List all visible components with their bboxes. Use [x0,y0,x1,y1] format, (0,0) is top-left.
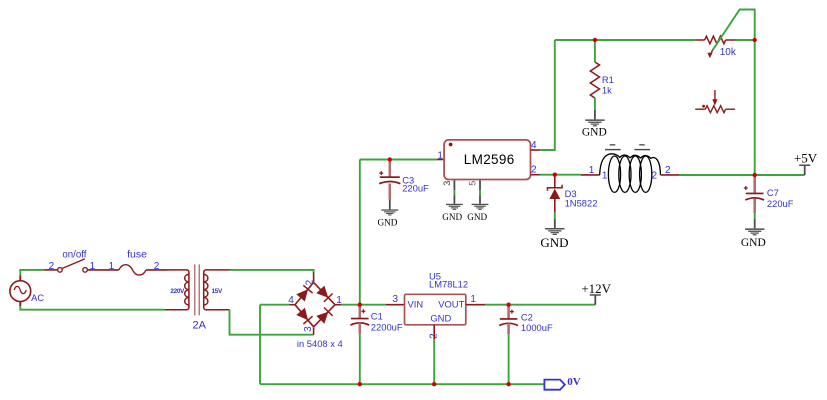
svg-text:2: 2 [531,164,537,175]
svg-text:VIN: VIN [408,298,424,309]
wire secondary top to bridge pin2 [230,270,314,273]
wire pin2 to D3 node [540,174,555,176]
power flag +5V [799,165,810,176]
svg-text:GND: GND [741,237,766,249]
transformer T1 primary winding [165,270,189,310]
pot wiper wire [713,10,755,51]
svg-text:220V: 220V [170,288,185,295]
LM2596 pin 1 stub [437,159,444,161]
junction +12V / C2 [506,303,510,307]
wire D3 node to inductor [555,174,581,176]
ground (D3) [545,228,564,235]
inductor L1 [600,154,661,193]
svg-text:1: 1 [470,294,476,305]
junction C3 [388,157,392,161]
wire AC bottom to transformer [20,306,165,310]
resistor R1 1k [590,62,599,98]
LM2596 pin 4 stub [531,149,541,151]
bridge pin 1 stub [335,304,341,306]
svg-text:1: 1 [589,165,595,176]
net flag 0V [544,380,564,390]
svg-text:C1: C1 [371,311,383,322]
switch SW1 on/off [58,259,88,272]
inductor core marks [605,144,650,150]
LM2596 pin 2 stub [531,174,541,176]
gnd lead pin5 [479,195,481,204]
svg-text:2: 2 [652,170,658,181]
gnd lead pin3 [453,195,455,204]
wire D3 to gnd [554,213,556,219]
svg-text:1N5822: 1N5822 [565,197,598,208]
svg-text:4: 4 [531,140,537,151]
C3 lower lead [388,184,391,200]
U5 pin 3 stub [386,304,405,306]
wire AC top to switch [20,270,44,276]
svg-text:C2: C2 [521,311,533,322]
svg-text:GND: GND [442,212,462,222]
svg-text:1k: 1k [602,85,612,96]
junction C1 / 0V rail [358,382,362,386]
LM2596 pin-1 dot [449,143,453,147]
svg-text:LM2596: LM2596 [464,152,515,167]
capacitor C7 [744,177,764,201]
wire bridge output up to LM2596 [359,160,361,305]
transformer T1 secondary winding [204,270,230,310]
regulator U5 LM78L12 [405,294,466,325]
svg-text:15V: 15V [212,288,223,295]
wire switch pin stub [45,269,58,271]
C2 lower lead [507,323,510,334]
junction R1 / top bus [593,38,597,42]
wire to +5V flag [755,174,805,176]
capacitor C3 [379,161,400,184]
svg-text:3: 3 [442,181,452,186]
capacitor C2 [499,306,518,325]
ground (R1) [585,119,604,126]
svg-text:10k: 10k [720,47,737,58]
trimmer resistor (floating) [695,90,735,113]
R1 gnd lead [594,110,596,120]
svg-text:2: 2 [49,261,55,272]
svg-text:LM78L12: LM78L12 [429,278,468,289]
C3 ground lead [389,200,391,210]
wire C2 to 0V rail [508,334,510,384]
wire pot to right bus [736,39,755,41]
IC U1 LM2596 buck regulator [444,140,530,180]
svg-text:2200uF: 2200uF [371,322,403,333]
AC source V1 [10,275,31,306]
0V rail [260,383,544,385]
svg-text:2A: 2A [192,320,206,332]
wire secondary bottom to bridge pin3 [230,310,314,335]
svg-text:1: 1 [437,150,443,161]
power flag +12V [590,294,601,305]
svg-text:3: 3 [303,326,314,332]
potentiometer RV1 10k [696,36,736,58]
svg-text:5: 5 [467,181,477,186]
wire bridge pin4 to 0V rail [260,304,289,306]
svg-text:GND: GND [467,212,487,222]
svg-text:3: 3 [393,294,399,305]
junction pot wiper / right bus [753,38,757,42]
ground (LM2596 pin3) [446,204,463,210]
U5 pin 1 stub [466,304,485,306]
wire R1 to gnd [594,98,596,110]
svg-text:R1: R1 [602,74,614,85]
wire C7 to gnd [754,213,756,219]
LM2596 pin 5 lead [479,180,481,190]
wire U5 VOUT to +12V [485,304,595,306]
svg-text:on/off: on/off [62,249,86,260]
svg-text:GND: GND [582,127,607,139]
diode D3 1N5822 (schottky) [548,175,563,213]
C7 lower lead [753,199,756,214]
wire switch to fuse [88,269,119,271]
junction U5 GND / 0V rail [432,382,436,386]
svg-text:220uF: 220uF [767,198,794,209]
svg-text:GND: GND [430,312,451,323]
svg-text:VOUT: VOUT [438,298,464,309]
svg-text:C7: C7 [767,187,779,198]
junction +5V node [753,173,757,177]
wire pin5 to gnd [479,190,481,195]
ground (C3) [381,209,398,215]
wire down to 0V rail [259,305,261,385]
transformer T1 core [194,264,200,315]
inductor pin 1 stub [581,174,600,176]
wire inductor to +5V node [680,174,755,176]
capacitor C1 [350,306,369,325]
wire to LM2596 pin 1 [360,159,437,161]
wire bridge out to U5 VIN [341,304,386,306]
bridge pin 4 stub [289,304,295,306]
svg-text:fuse: fuse [127,248,147,260]
svg-text:GND: GND [377,217,397,227]
svg-text:+12V: +12V [581,281,611,296]
wire pin3 to gnd [453,190,455,195]
svg-text:+5V: +5V [794,151,818,166]
svg-text:0V: 0V [567,376,581,388]
junction C2 / 0V rail [506,382,510,386]
D3 gnd lead [554,219,556,228]
junction LM2596 pin2 / D3 [553,173,557,177]
C7 gnd lead [754,219,756,228]
svg-text:in 5408 x 4: in 5408 x 4 [297,338,343,349]
wire fuse to transformer [146,269,167,271]
wire right bus down to +5V node [754,40,756,175]
svg-text:1000uF: 1000uF [521,322,553,333]
svg-text:1: 1 [602,170,608,181]
bridge pin 2 stub [313,273,315,282]
ground (C7) [745,228,764,235]
junction bridge output / C1 [358,303,362,307]
ground (LM2596 pin5) [472,204,489,210]
wire top bus to R1 [594,40,596,62]
svg-text:AC: AC [31,293,44,303]
bridge rectifier D1-D4 (in5408 x 4) [295,282,335,326]
svg-text:1: 1 [109,261,115,272]
svg-text:GND: GND [540,235,568,250]
wire C1 to 0V rail [359,334,361,384]
LM2596 pin 3 lead [453,180,455,190]
wire U5 GND to 0V rail [433,339,435,384]
bridge pin 3 stub [313,327,315,335]
top bus wire [555,39,696,41]
inductor pin 2 stub [660,174,679,176]
svg-text:2: 2 [305,279,316,285]
C1 lower lead [358,323,361,335]
wire pin4 up to top bus [540,40,555,150]
svg-text:220uF: 220uF [402,183,429,194]
fuse F1 [119,265,146,275]
U5 pin 2 stub [433,325,435,339]
